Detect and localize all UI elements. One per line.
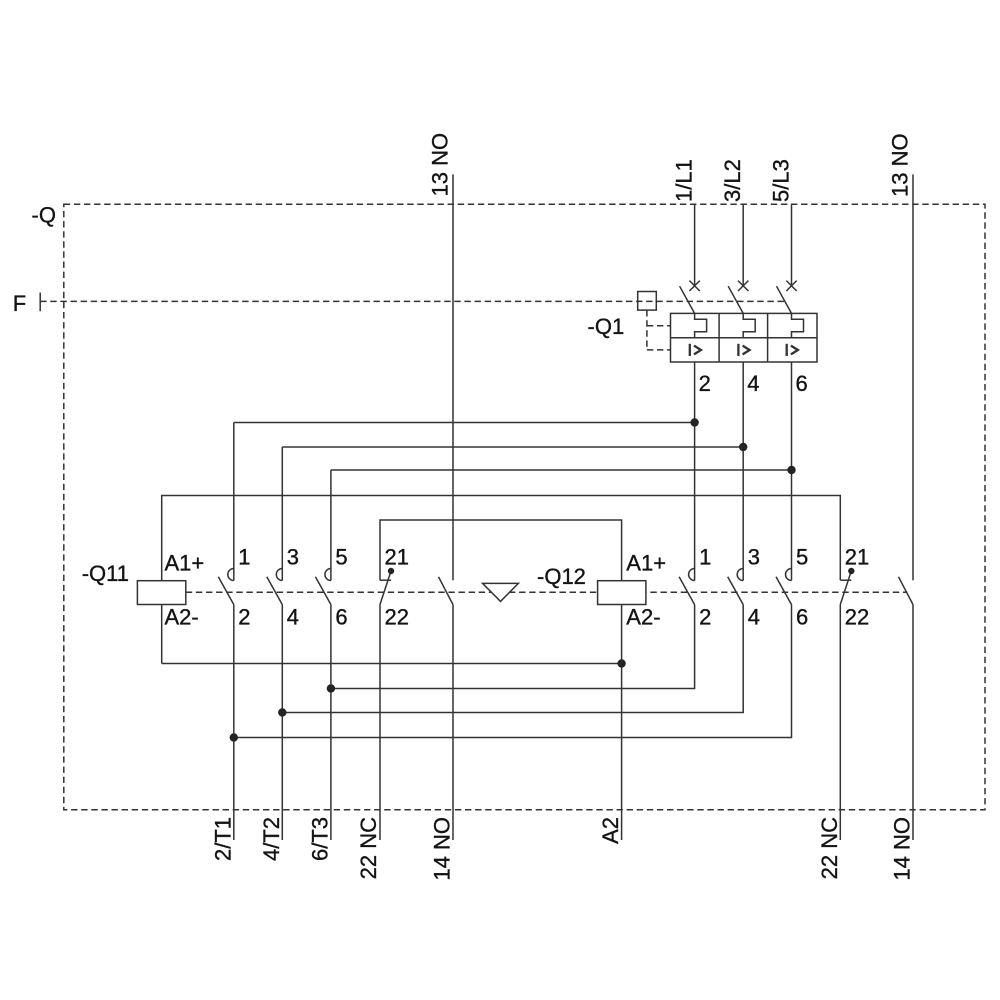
wire Q11 coil A1 to Q12 contact 21 [162,496,841,581]
wire L2 input [742,204,744,285]
label 14 NO right [889,817,914,881]
svg-text:2: 2 [699,371,711,396]
svg-text:22 NC: 22 NC [356,817,381,879]
coil Q12 box [598,581,646,605]
svg-text:6/T3: 6/T3 [308,817,333,861]
svg-text:4/T2: 4/T2 [259,817,284,861]
svg-text:1/L1: 1/L1 [671,159,696,202]
svg-text:22 NC: 22 NC [817,817,842,879]
breaker Q1 thermal element pole 3 [792,313,804,337]
svg-text:5: 5 [335,545,347,570]
svg-text:5: 5 [796,545,808,570]
contact Q11 pole 1 (arc+blade) [218,569,234,605]
wire cross link L3 to Q11 contact 5 [331,469,792,471]
contact Q11 21-22 NC (seat+dot+blade) [380,568,394,605]
wire Q12 coil A2 down to A2 terminal [621,605,623,841]
svg-text:5/L3: 5/L3 [768,159,793,202]
wire Q1 output 6 down to Q12 contact 5 [791,362,793,581]
breaker Q1 pole 1 contact blade [680,286,695,313]
wire cross link L1 to Q11 contact 1 [234,422,695,424]
junction dot crossover T2 [278,708,286,716]
contact Q11 13-14 NO blade [439,577,454,605]
breaker Q1 thermal element pole 1 [695,313,707,337]
label 6/T3 [308,817,333,861]
node 1/L1 label [671,159,696,202]
node 5/L3 label [768,159,793,202]
wire Q12 contact 2 crossover to T3 line [331,605,695,689]
wire Q11 contact 6 bottom to motor T3 [330,605,332,840]
contact Q12 pole 3 (arc+blade) [728,569,744,605]
svg-text:21: 21 [385,545,409,570]
contact Q11 pole 3 (arc+blade) [267,569,283,605]
junction dot crossover T3 [327,684,335,692]
svg-text:-Q: -Q [32,203,56,228]
junction dot A2 common [617,659,625,667]
svg-text:3: 3 [287,545,299,570]
breaker Q1 thermal element pole 2 [743,313,755,337]
wire Q12 contact 4 crossover to T2 line [282,605,743,713]
dashed enclosure border -Q [64,204,985,809]
wire 13 NO right vertical [912,174,914,580]
wire Q11 contact 1 top [233,423,235,581]
svg-text:4: 4 [748,605,760,630]
wire Q11 coil A2 down [161,605,163,664]
svg-text:6: 6 [796,605,808,630]
wire Q11 14 NO bottom [452,605,454,840]
breaker Q1 pole 3 contact blade [777,286,792,313]
F terminal tick [39,293,41,312]
svg-text:-Q12: -Q12 [537,564,586,589]
breaker Q1 body box [671,313,818,362]
svg-text:13 NO: 13 NO [888,133,913,197]
breaker Q1 magnetic trip symbol I> pole 1 [690,344,701,356]
breaker Q1 pole 2 contact blade [728,286,743,313]
svg-text:3/L2: 3/L2 [720,159,745,202]
svg-text:14 NO: 14 NO [889,817,914,881]
contact Q12 pole 5 (arc+blade) [776,569,792,605]
junction dot crossover T1 [230,733,238,741]
breaker Q1 pole 3 cross [786,281,796,291]
node 3/L2 label [720,159,745,202]
svg-text:22: 22 [385,605,409,630]
svg-text:F: F [13,291,26,316]
wire L3 input [791,204,793,285]
svg-text:A2: A2 [598,817,623,844]
svg-text:4: 4 [287,605,299,630]
svg-text:6: 6 [796,371,808,396]
svg-text:1: 1 [699,545,711,570]
svg-text:2: 2 [238,605,250,630]
contact Q12 pole 1 (arc+blade) [679,569,695,605]
junction dot L2/cross [739,443,747,451]
breaker Q1 pole 1 cross [689,281,699,291]
contact Q12 13-14 NO blade [899,577,914,605]
wire Q11 22 NC bottom [379,605,381,841]
svg-text:A2-: A2- [165,605,199,630]
svg-text:21: 21 [845,545,869,570]
wire coil A2 common [162,663,622,665]
wire Q12 22 NC bottom [839,605,841,841]
junction dot L3/cross [787,466,795,474]
wire Q11 contact 21 to Q12 coil A1 [380,520,622,581]
wire Q1 output 4 down to Q12 contact 3 [742,362,744,581]
breaker Q1 magnetic trip symbol I> pole 3 [787,344,798,356]
wire Q11 contact 4 bottom to motor T2 [281,605,283,840]
label 22 NC left [356,817,381,879]
wire Q1 output 2 down to Q12 contact 1 [694,362,696,581]
breaker Q1 trip test square [638,292,657,311]
F trip dashed line [40,300,784,302]
contact Q11 pole 5 (arc+blade) [315,569,331,605]
wire Q11 contact 3 top [281,447,283,581]
coil Q11 box [137,581,185,605]
wire Q12 14 NO bottom [912,605,914,840]
node 13 NO right label [888,133,913,197]
svg-text:22: 22 [845,605,869,630]
svg-text:6: 6 [335,605,347,630]
svg-text:A2-: A2- [626,605,660,630]
label 14 NO left [429,817,454,881]
breaker Q1 pole 2 cross [738,281,748,291]
label 2/T1 [210,817,235,861]
svg-text:A1+: A1+ [165,551,205,576]
label A2 [598,817,623,844]
wire 13 NO left vertical [452,174,454,580]
svg-text:1: 1 [238,545,250,570]
mechanical linkage dashed line [186,591,908,593]
wire Q12 contact 6 crossover to T1 line [234,605,792,738]
label 22 NC right [817,817,842,879]
svg-text:14 NO: 14 NO [429,817,454,881]
node 13 NO left label [427,133,452,197]
svg-text:13 NO: 13 NO [427,133,452,197]
wire L1 input [694,204,696,285]
breaker Q1 magnetic trip symbol I> pole 2 [738,344,749,356]
contact Q12 21-22 NC (seat+dot+blade) [840,568,854,605]
label 4/T2 [259,817,284,861]
wire Q11 contact 2 bottom to motor T1 [233,605,235,840]
svg-text:4: 4 [747,371,759,396]
mechanical interlock triangle [483,583,519,601]
breaker Q1 trip linkage dashed [647,310,671,350]
wire Q11 contact 5 top [330,470,332,581]
svg-text:3: 3 [748,545,760,570]
wire cross link L2 to Q11 contact 3 [282,446,743,448]
junction dot L1/cross [690,418,698,426]
svg-text:2: 2 [699,605,711,630]
svg-text:A1+: A1+ [626,551,666,576]
svg-text:-Q1: -Q1 [588,314,625,339]
svg-text:-Q11: -Q11 [82,561,129,586]
svg-text:2/T1: 2/T1 [210,817,235,861]
